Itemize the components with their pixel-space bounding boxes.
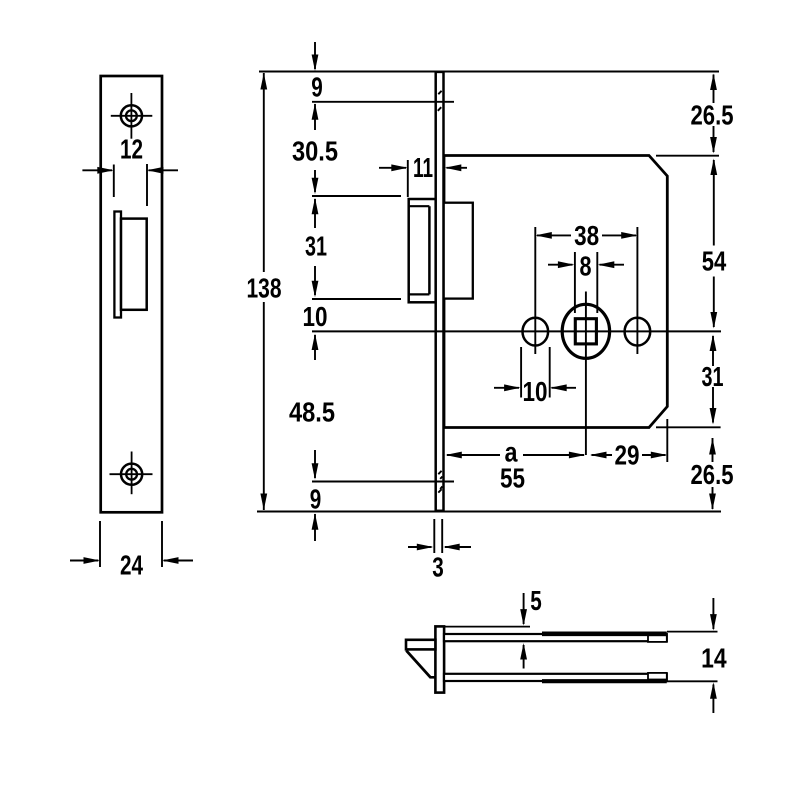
dimension 12 arrows (82, 169, 178, 171)
lock case body (444, 156, 667, 428)
svg-text:8: 8 (580, 251, 592, 282)
strike plate screw hole bottom (110, 452, 153, 495)
dimension 10 follower extension lines (521, 347, 550, 398)
svg-text:10: 10 (523, 376, 548, 407)
side view upper plate end piece (648, 635, 667, 642)
svg-text:12: 12 (120, 134, 143, 165)
svg-text:10: 10 (303, 301, 328, 332)
side view faceplate bar (435, 626, 444, 692)
dimension a/29 line segments (447, 454, 666, 456)
dimension 10 follower arrows (494, 387, 576, 389)
dimension 29 extension line (666, 419, 668, 462)
left hole vertical line (534, 227, 536, 354)
svg-text:11: 11 (413, 152, 433, 183)
left small hole (523, 318, 549, 346)
right hole vertical line (636, 227, 638, 354)
latch bolt head (409, 199, 436, 302)
side view lower plate end piece (648, 673, 667, 680)
dimension 8 extension lines (575, 252, 597, 313)
dimension 24 arrows (70, 560, 193, 562)
latch bolt inside case (444, 203, 473, 299)
dimension 14 extension lines (667, 632, 718, 682)
dimension 138 line and arrows (263, 73, 265, 510)
right small hole (625, 318, 651, 346)
horizontal centerline (312, 330, 721, 332)
dimension 11 extension line (407, 160, 409, 197)
dimension 10 follower label (524, 379, 546, 402)
svg-text:31: 31 (305, 231, 327, 262)
svg-text:9: 9 (310, 483, 322, 514)
strike plate screw hole top (111, 93, 153, 139)
chamfer top extension line (656, 155, 719, 157)
svg-text:31: 31 (702, 361, 724, 392)
faceplate screw marks top (438, 91, 443, 493)
side view latch bevel edge (430, 676, 436, 679)
dimension 3 arrows (408, 546, 471, 548)
follower big hole (562, 304, 609, 358)
strike plate latch opening lip (114, 212, 121, 318)
left dimension chain arrows (x=315) (314, 42, 316, 541)
dimension 11 arrows (379, 167, 467, 169)
svg-text:30.5: 30.5 (292, 136, 338, 167)
dimension 14 arrows (712, 598, 714, 713)
dimension 5 arrows (523, 593, 525, 669)
svg-text:5: 5 (530, 585, 542, 616)
line y=196 (30.5/31 boundary) (312, 195, 401, 197)
line y=299 (31/10 boundary) (312, 298, 401, 300)
dimension 12 extension lines (114, 164, 147, 206)
faceplate strip (436, 72, 444, 511)
right dimension chain (x=713) (713, 75, 714, 510)
follower vertical centerline (585, 292, 587, 456)
svg-text:24: 24 (120, 550, 144, 581)
dimension 8 arrows (548, 264, 624, 266)
spindle square hole (575, 319, 596, 344)
side view latch bevel (406, 651, 430, 678)
side view latch bar (406, 640, 435, 650)
dimension 38 line (537, 234, 636, 236)
svg-text:48.5: 48.5 (289, 397, 335, 428)
line y=481.5 (48.5/9 boundary) (312, 481, 454, 483)
svg-text:138: 138 (247, 273, 282, 304)
svg-text:29: 29 (615, 440, 640, 471)
bottom extension line (257, 511, 721, 513)
strike plate latch opening box (121, 219, 147, 310)
side view lower plate thick segment (542, 679, 667, 683)
chamfer bottom extension line (656, 426, 721, 428)
svg-text:9: 9 (311, 72, 323, 103)
svg-text:3: 3 (432, 552, 444, 583)
svg-text:38: 38 (574, 220, 599, 251)
line y=101.8 (9 top boundary) (312, 101, 454, 103)
side view lower case plate (444, 674, 667, 681)
latch bolt head inner lines (409, 206, 429, 294)
side view upper case plate (444, 634, 667, 641)
svg-text:55: 55 (500, 463, 525, 494)
svg-text:26.5: 26.5 (691, 100, 734, 131)
svg-text:26.5: 26.5 (691, 459, 734, 490)
top extension line (259, 71, 719, 73)
strike plate outline (101, 76, 162, 512)
dimension 5 extension line (444, 626, 530, 628)
svg-text:54: 54 (702, 246, 727, 277)
dimension 3 extension lines (434, 519, 442, 553)
side view upper plate thick segment (542, 631, 667, 636)
svg-text:14: 14 (701, 643, 727, 674)
dimension 24 extension lines (100, 521, 162, 567)
